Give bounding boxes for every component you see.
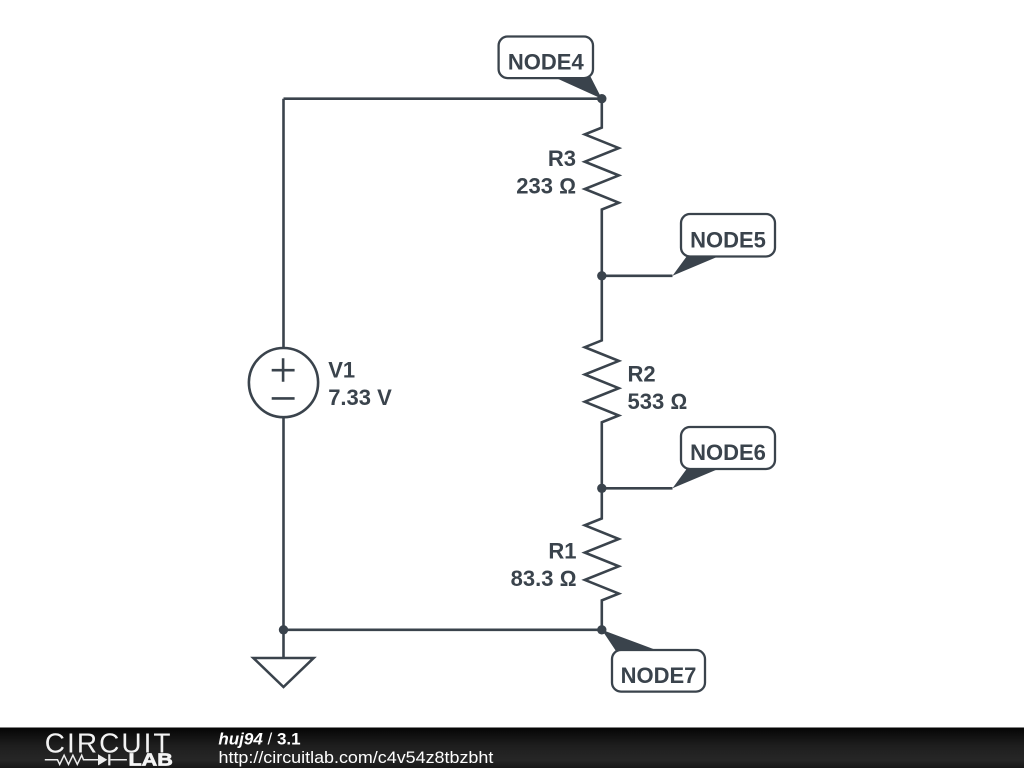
wire left rail upper [282,99,285,349]
junction node NODE5 [597,271,606,280]
resistor R1 [585,488,619,630]
svg-text:R1: R1 [548,539,576,564]
wire bottom horizontal [284,628,602,631]
net flag NODE4 [499,37,602,99]
svg-text:R3: R3 [548,146,576,171]
svg-text:V1: V1 [328,357,355,382]
junction node NODE7 [597,625,606,634]
svg-text:NODE7: NODE7 [621,663,697,688]
resistor R3 [585,99,619,276]
net flag NODE5 [673,214,776,276]
svg-text:huj94 / 3.1: huj94 / 3.1 [218,729,300,748]
junction node NODE4 [597,94,606,103]
svg-text:83.3 Ω: 83.3 Ω [511,566,577,591]
wire top horizontal [284,97,602,100]
resistor R2 [585,276,619,489]
footer logo resistor-diode glyph [45,754,127,765]
ground [253,630,313,687]
junction node NODE6 [597,484,606,493]
svg-text:NODE6: NODE6 [690,440,766,465]
svg-text:533 Ω: 533 Ω [628,389,688,414]
junction node ground [279,625,288,634]
wire left rail lower [282,417,285,630]
voltage source V1 [249,348,318,417]
wire node6 stub [602,487,673,490]
svg-text:NODE4: NODE4 [508,50,585,75]
wire node5 stub [602,274,673,277]
svg-text:LAB: LAB [129,750,173,768]
net flag NODE6 [673,427,776,488]
svg-text:R2: R2 [628,361,656,386]
svg-text:http://circuitlab.com/c4v54z8t: http://circuitlab.com/c4v54z8tbzbht [219,748,494,767]
net flag NODE7 [602,630,705,692]
svg-text:7.33 V: 7.33 V [328,385,392,410]
svg-text:NODE5: NODE5 [690,227,766,252]
footer bar [0,728,1024,768]
svg-text:233 Ω: 233 Ω [516,174,576,199]
